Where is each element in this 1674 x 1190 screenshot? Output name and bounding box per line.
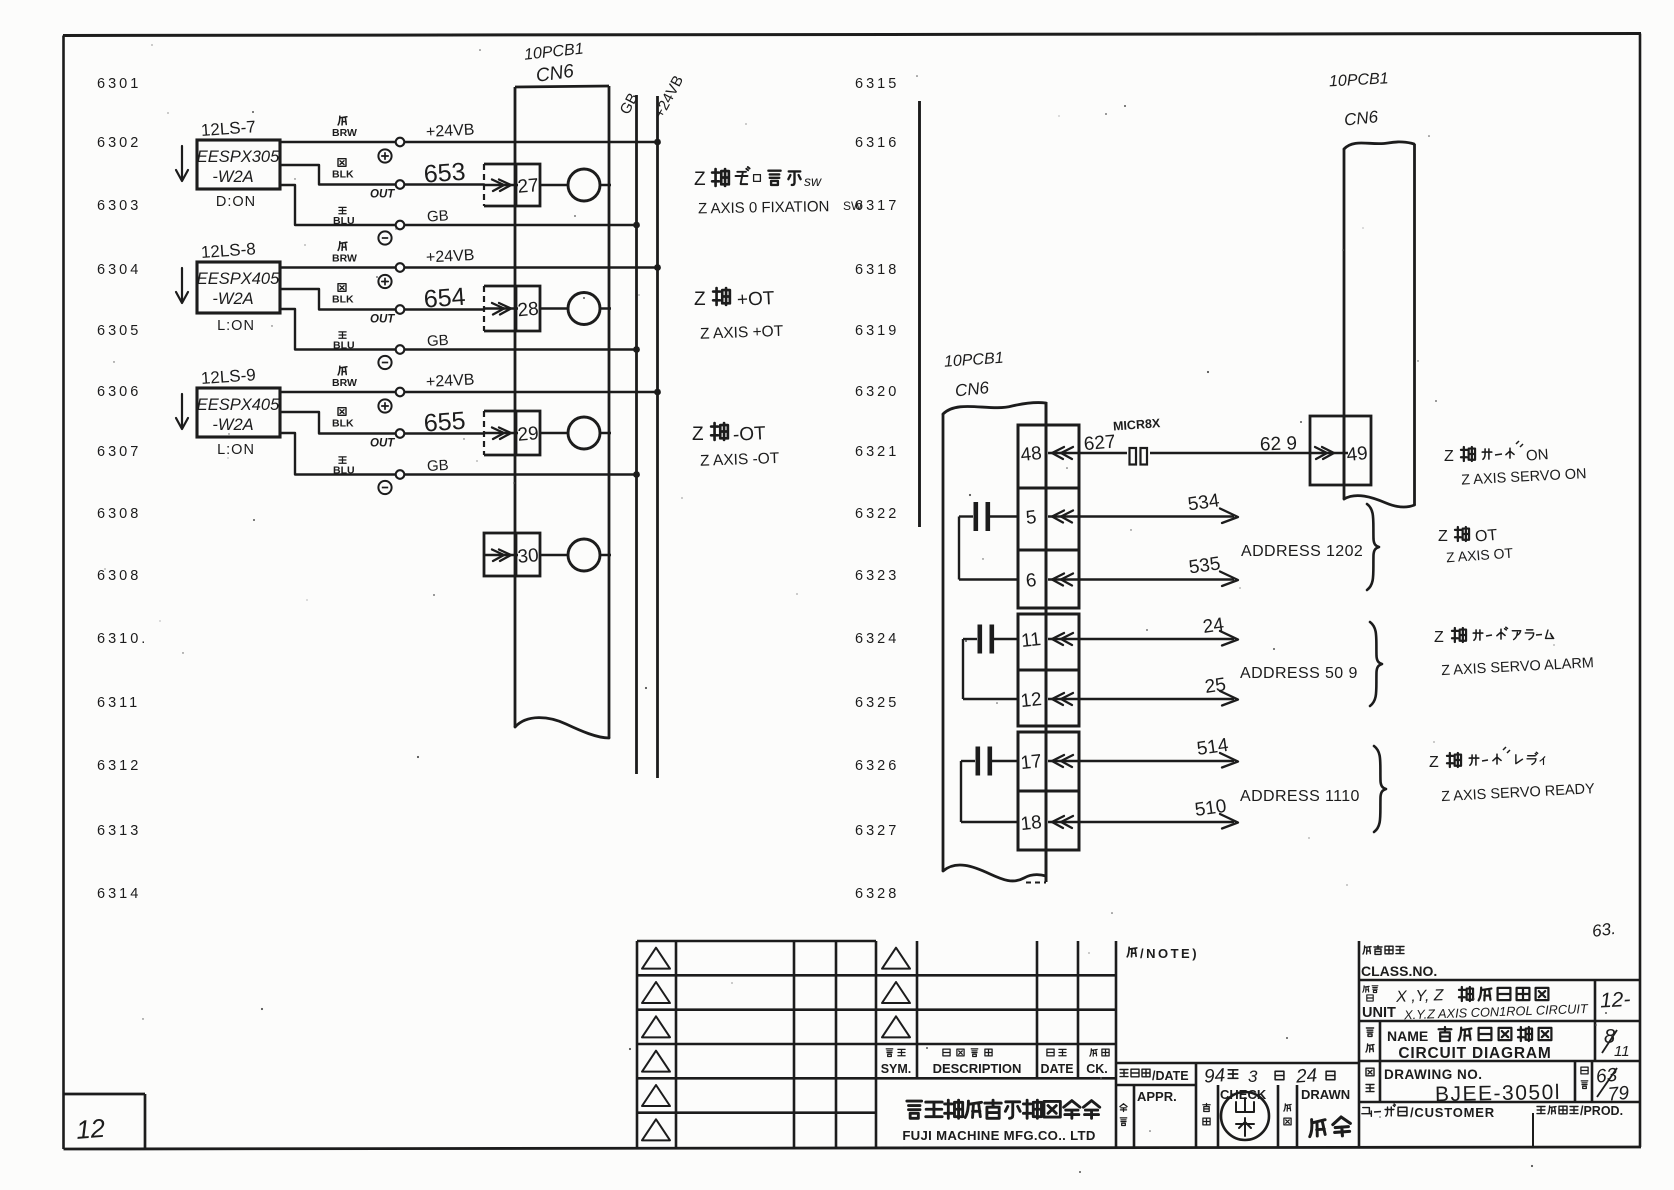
svg-text:6316: 6316	[855, 135, 899, 151]
svg-text:6307: 6307	[97, 444, 141, 460]
svg-text:49: 49	[1346, 443, 1369, 466]
line number 6316 (right)	[855, 135, 899, 151]
svg-text:DATE: DATE	[1040, 1062, 1073, 1076]
svg-text:+24VB: +24VB	[426, 247, 475, 267]
wire 655 (12LS-9 BLK OUT lead)	[280, 407, 484, 450]
svg-text:Z: Z	[1434, 629, 1444, 646]
svg-text:ADDRESS 1202: ADDRESS 1202	[1241, 543, 1363, 560]
date row 94-3-24	[1116, 1063, 1359, 1147]
svg-text:29: 29	[517, 423, 540, 446]
line number 6313 (left)	[97, 823, 141, 839]
wire 653 (12LS-7 BLK OUT lead)	[280, 158, 484, 201]
wire 654 (12LS-8 BLK OUT lead)	[280, 283, 484, 326]
svg-text:27: 27	[517, 175, 540, 198]
connector pin 29 (10PCB1 CN6)	[484, 411, 540, 455]
annotation Z AXIS SERVO ON	[1444, 441, 1587, 489]
svg-text:Z: Z	[692, 424, 704, 445]
line number 6326 (right)	[855, 758, 899, 774]
svg-text:SW: SW	[843, 199, 863, 213]
svg-text:BLK: BLK	[332, 169, 354, 181]
svg-text:63.: 63.	[1591, 919, 1617, 941]
indicator circle pin 30	[540, 539, 611, 571]
bus +24VB (vertical)	[651, 73, 687, 778]
capacitor (pins 17-18)	[961, 747, 1018, 823]
label ADDRESS 1202	[1241, 543, 1363, 560]
svg-text:MICR8X: MICR8X	[1113, 416, 1162, 433]
svg-text:18: 18	[1020, 812, 1043, 835]
svg-text:OUT: OUT	[370, 438, 395, 450]
wire GB (12LS-9 BLU lead)	[280, 433, 640, 494]
svg-text:17: 17	[1020, 751, 1043, 774]
svg-text:655: 655	[423, 407, 467, 438]
svg-text:6308: 6308	[97, 506, 141, 522]
svg-text:Z AXIS -OT: Z AXIS -OT	[700, 450, 780, 470]
label ADDRESS 509	[1240, 665, 1358, 682]
svg-text:11: 11	[1614, 1043, 1630, 1060]
svg-text:UNIT: UNIT	[1362, 1005, 1396, 1021]
line number 6322 (right)	[855, 506, 899, 522]
line number 6309 (left)	[97, 568, 141, 584]
note area	[1127, 946, 1199, 961]
line number 6303 (left)	[97, 198, 141, 214]
svg-text:ADDRESS 50 9: ADDRESS 50 9	[1240, 665, 1358, 682]
svg-text:APPR.: APPR.	[1137, 1089, 1177, 1104]
wire 25 (pin 12)	[1079, 674, 1238, 705]
svg-text:Z AXIS OT: Z AXIS OT	[1446, 545, 1514, 566]
svg-text:6322: 6322	[855, 506, 899, 522]
svg-text:-W2A: -W2A	[212, 168, 253, 186]
line number 6304 (left)	[97, 262, 141, 278]
svg-text:Z: Z	[694, 169, 706, 190]
line number 6319 (right)	[855, 323, 899, 339]
line number 6311 (left)	[97, 695, 140, 711]
svg-text:/NOTE): /NOTE)	[1140, 946, 1199, 961]
capacitor (pins 5-6)	[959, 502, 1018, 580]
wire GB (12LS-8 BLU lead)	[280, 309, 640, 369]
svg-text:10PCB1: 10PCB1	[523, 41, 584, 64]
svg-text:+OT: +OT	[736, 288, 775, 311]
indicator circle pin 29	[540, 417, 611, 449]
brace Z AXIS OT group	[1367, 504, 1379, 590]
svg-text:OUT: OUT	[370, 314, 395, 326]
svg-text:12LS-9: 12LS-9	[200, 365, 256, 388]
svg-text:SYM.: SYM.	[881, 1062, 912, 1076]
annotation Z AXIS OT	[1438, 527, 1514, 566]
svg-text:12LS-8: 12LS-8	[200, 239, 256, 262]
svg-text:6325: 6325	[855, 695, 899, 711]
svg-text:6310.: 6310.	[97, 631, 148, 647]
svg-text:12: 12	[1020, 689, 1043, 712]
pin 17 (10PCB1 CN6)	[1020, 751, 1079, 774]
line number 6308 (left)	[97, 506, 141, 522]
svg-text:6326: 6326	[855, 758, 899, 774]
svg-text:24: 24	[1294, 1065, 1318, 1087]
line number 6314 (left)	[97, 886, 141, 902]
pin 18 (10PCB1 CN6)	[1020, 812, 1079, 835]
svg-text:6324: 6324	[855, 631, 899, 647]
svg-text:6301: 6301	[97, 76, 141, 92]
svg-text:6314: 6314	[97, 886, 141, 902]
svg-text:-W2A: -W2A	[212, 290, 253, 308]
check stamp (Yamamoto)	[1221, 1092, 1269, 1140]
brace Z AXIS SERVO READY group	[1374, 746, 1386, 832]
svg-text:X ,Y, Z: X ,Y, Z	[1395, 987, 1445, 1006]
svg-text:5: 5	[1025, 507, 1038, 529]
page number box 12	[64, 1094, 145, 1148]
annotation Z AXIS SERVO ALARM	[1434, 627, 1594, 679]
svg-text:6319: 6319	[855, 323, 899, 339]
svg-text:GB: GB	[427, 457, 450, 475]
connector pin 30 (10PCB1 CN6)	[484, 533, 540, 576]
capacitor MICR8X	[1113, 416, 1162, 464]
svg-text:Z: Z	[694, 289, 706, 310]
wire +24VB (12LS-7 BRW lead)	[280, 116, 661, 162]
svg-text:ADDRESS 1110: ADDRESS 1110	[1240, 788, 1360, 805]
svg-text:654: 654	[423, 283, 467, 314]
svg-text:BLK: BLK	[332, 418, 354, 430]
line number 6320 (right)	[855, 384, 899, 400]
line number 6305 (left)	[97, 323, 141, 339]
svg-text:Z: Z	[1438, 528, 1448, 545]
svg-text:BJEE-3050l: BJEE-3050l	[1435, 1081, 1561, 1106]
svg-text:BLU: BLU	[333, 465, 355, 477]
wire 514 (pin 17)	[1079, 735, 1238, 768]
svg-text:CN6: CN6	[535, 61, 576, 87]
wire +24VB (12LS-8 BRW lead)	[280, 242, 661, 289]
pin 6 (10PCB1 CN6)	[1025, 570, 1079, 592]
svg-text:12LS-7: 12LS-7	[200, 117, 256, 140]
pin 12 (10PCB1 CN6)	[1020, 689, 1079, 712]
line number 6306 (left)	[97, 384, 141, 400]
line number 6301 (left)	[97, 76, 141, 92]
svg-text:79: 79	[1607, 1083, 1631, 1106]
svg-text:6321: 6321	[855, 444, 899, 460]
line number 6310. (left)	[97, 631, 148, 647]
DRAWING NO. cell: BJEE-30501	[1366, 1065, 1631, 1106]
svg-text:OT: OT	[1474, 527, 1498, 546]
svg-text:Z AXIS SERVO ALARM: Z AXIS SERVO ALARM	[1441, 655, 1594, 679]
revision table (left)	[637, 941, 876, 1147]
pin 49 (right connector)	[1310, 416, 1371, 485]
svg-text:-W2A: -W2A	[212, 416, 253, 434]
svg-text:12-: 12-	[1599, 988, 1631, 1013]
line number 6302 (left)	[97, 135, 141, 151]
svg-text:6327: 6327	[855, 823, 899, 839]
CUSTOMER / PROD. cells	[1362, 1104, 1623, 1120]
svg-text:/CUSTOMER: /CUSTOMER	[1410, 1105, 1495, 1120]
limit switch 12LS-9 (EESPX405-W2A)	[176, 365, 280, 458]
svg-text:+24VB: +24VB	[426, 371, 475, 391]
wire +24VB (12LS-9 BRW lead)	[280, 366, 661, 413]
svg-text:DRAWN: DRAWN	[1301, 1087, 1350, 1102]
limit switch 12LS-7 (EESPX305-W2A)	[176, 117, 280, 210]
wire GB (12LS-7 BLU lead)	[280, 185, 640, 245]
svg-text:653: 653	[423, 158, 467, 189]
line number 6323 (right)	[855, 568, 899, 584]
svg-text:6308: 6308	[97, 568, 141, 584]
svg-text:EESPX305: EESPX305	[197, 148, 280, 166]
line number 6321 (right)	[855, 444, 899, 460]
separator line between sheet halves	[918, 101, 921, 527]
line number 6312 (left)	[97, 758, 141, 774]
svg-text:10PCB1: 10PCB1	[1329, 70, 1389, 90]
indicator circle pin 28	[540, 293, 611, 325]
connector 10PCB1 CN6 (right sheet edge)	[1329, 70, 1415, 507]
annotation Z AXIS 0 FIXATION SW	[694, 167, 863, 217]
svg-text:6320: 6320	[855, 384, 899, 400]
svg-text:BRW: BRW	[332, 377, 357, 389]
svg-text:6328: 6328	[855, 886, 899, 902]
svg-text:/PROD.: /PROD.	[1580, 1104, 1623, 1118]
svg-text:Z: Z	[1429, 754, 1439, 771]
svg-text:EESPX405: EESPX405	[197, 396, 280, 414]
company block FUJI MACHINE MFG.CO.,LTD	[902, 1100, 1099, 1143]
svg-text:12: 12	[75, 1113, 106, 1145]
title info panel	[1359, 941, 1640, 1147]
svg-text:BLK: BLK	[332, 294, 354, 306]
svg-text:6313: 6313	[97, 823, 141, 839]
svg-text:BLU: BLU	[333, 215, 355, 227]
svg-text:BRW: BRW	[332, 127, 357, 139]
svg-text:Z: Z	[1444, 448, 1454, 465]
svg-text:CK.: CK.	[1086, 1062, 1108, 1076]
svg-text:6303: 6303	[97, 198, 141, 214]
svg-text:GB: GB	[427, 332, 450, 350]
pin 11 (10PCB1 CN6)	[1020, 629, 1079, 652]
svg-text:6302: 6302	[97, 135, 141, 151]
svg-text:6312: 6312	[97, 758, 141, 774]
svg-text:6304: 6304	[97, 262, 141, 278]
svg-text:94: 94	[1203, 1065, 1226, 1087]
svg-text:Z AXIS +OT: Z AXIS +OT	[700, 323, 784, 343]
pin 5 (10PCB1 CN6)	[1025, 507, 1079, 529]
drawn signature	[1308, 1116, 1351, 1136]
annotation Z AXIS -OT	[692, 423, 780, 470]
indicator circle pin 27	[540, 169, 611, 201]
svg-text:Z AXIS SERVO READY: Z AXIS SERVO READY	[1441, 781, 1596, 805]
line number 6324 (right)	[855, 631, 899, 647]
wire 627 (pin 48 to MICR8X)	[1079, 432, 1127, 456]
CLASS.NO. cell	[1361, 946, 1437, 979]
svg-text:+24VB: +24VB	[426, 121, 475, 141]
annotation Z AXIS SERVO READY	[1429, 747, 1595, 805]
bus GB (vertical)	[617, 90, 642, 774]
pin column cells (pins 48,5,6,11,12,17,18)	[1018, 425, 1079, 850]
svg-text:EESPX405: EESPX405	[197, 270, 280, 288]
line number 6315 (right)	[855, 76, 899, 92]
svg-text:28: 28	[517, 299, 540, 322]
svg-text:510: 510	[1193, 796, 1227, 821]
svg-text:514: 514	[1195, 735, 1230, 760]
label ADDRESS 1110	[1240, 788, 1360, 805]
svg-text:534: 534	[1186, 490, 1221, 515]
svg-text:/DATE: /DATE	[1152, 1069, 1189, 1083]
limit switch 12LS-8 (EESPX405-W2A)	[176, 239, 280, 334]
svg-text:CLASS.NO.: CLASS.NO.	[1361, 963, 1437, 979]
svg-text:ON: ON	[1525, 446, 1549, 465]
svg-text:6306: 6306	[97, 384, 141, 400]
revision table (right) with SYM/DESCRIPTION/DATE/CK header	[876, 941, 1116, 1147]
annotation Z AXIS +OT	[694, 288, 784, 343]
svg-text:D:ON: D:ON	[216, 194, 256, 210]
svg-text:BLU: BLU	[333, 340, 355, 352]
connector pin 28 (10PCB1 CN6)	[484, 286, 540, 331]
NAME cell: CIRCUIT DIAGRAM	[1366, 1026, 1630, 1062]
svg-text:62 9: 62 9	[1260, 433, 1298, 455]
svg-text:L:ON: L:ON	[217, 318, 255, 334]
svg-text:sw: sw	[804, 173, 822, 189]
wire 510 (pin 18)	[1079, 796, 1238, 829]
pin 48 (10PCB1 CN6)	[1020, 443, 1079, 466]
line number 6327 (right)	[855, 823, 899, 839]
svg-text:6318: 6318	[855, 262, 899, 278]
capacitor (pins 11-12)	[963, 625, 1018, 700]
svg-text:L:ON: L:ON	[217, 442, 255, 458]
svg-text:DESCRIPTION: DESCRIPTION	[933, 1061, 1022, 1076]
svg-text:24: 24	[1201, 614, 1225, 638]
svg-text:25: 25	[1203, 674, 1227, 698]
svg-text:48: 48	[1020, 443, 1043, 466]
approval / check / drawn cells	[1120, 1085, 1350, 1147]
line number 6325 (right)	[855, 695, 899, 711]
connector 10PCB1 CN6 (right half, left envelope)	[943, 350, 1046, 883]
svg-text:11: 11	[1020, 629, 1042, 652]
wire 535 (pin 6)	[1079, 553, 1238, 586]
svg-text:CN6: CN6	[954, 378, 990, 401]
svg-text:Z AXIS 0 FIXATION: Z AXIS 0 FIXATION	[698, 198, 830, 217]
svg-text:30: 30	[517, 545, 540, 568]
svg-text:627: 627	[1083, 432, 1116, 456]
line number 6317 (right)	[855, 198, 899, 214]
svg-text:10PCB1: 10PCB1	[944, 350, 1005, 371]
svg-text:CIRCUIT DIAGRAM: CIRCUIT DIAGRAM	[1398, 1045, 1551, 1062]
line number 6307 (left)	[97, 444, 141, 460]
svg-text:6311: 6311	[97, 695, 140, 711]
svg-text:OUT: OUT	[370, 189, 395, 201]
svg-text:6323: 6323	[855, 568, 899, 584]
svg-text:BRW: BRW	[332, 253, 357, 265]
handwritten sheet mark 63.	[1591, 919, 1617, 941]
svg-text:GB: GB	[427, 207, 450, 225]
svg-text:-OT: -OT	[732, 423, 766, 446]
svg-text:3: 3	[1248, 1067, 1258, 1086]
svg-text:NAME: NAME	[1387, 1028, 1428, 1044]
svg-text:GB: GB	[617, 90, 642, 117]
brace Z AXIS SERVO ALARM group	[1370, 622, 1382, 706]
wire 534 (pin 5)	[1079, 490, 1238, 523]
svg-text:FUJI MACHINE MFG.CO.. LTD: FUJI MACHINE MFG.CO.. LTD	[902, 1128, 1095, 1143]
svg-text:CN6: CN6	[1343, 107, 1379, 130]
svg-text:535: 535	[1187, 553, 1221, 578]
svg-text:6305: 6305	[97, 323, 141, 339]
svg-text:6: 6	[1025, 570, 1038, 592]
line number 6318 (right)	[855, 262, 899, 278]
svg-text:Z AXIS SERVO ON: Z AXIS SERVO ON	[1461, 466, 1587, 489]
line number 6328 (right)	[855, 886, 899, 902]
wire 24 (pin 11)	[1079, 614, 1238, 645]
connector 10PCB1 CN6 (left sheet edge)	[515, 41, 609, 738]
svg-text:6315: 6315	[855, 76, 899, 92]
UNIT cell: X,Y,Z axis control circuit	[1362, 986, 1631, 1023]
connector pin 27 (10PCB1 CN6)	[484, 164, 540, 206]
wire 629 (MICR8X to pin 49)	[1150, 433, 1310, 455]
svg-text:DRAWING NO.: DRAWING NO.	[1384, 1067, 1483, 1082]
